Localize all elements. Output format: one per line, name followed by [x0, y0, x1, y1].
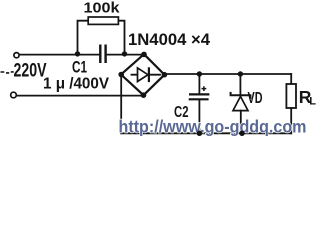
junction dot bottom rail at VD [239, 131, 244, 136]
svg-text:220V: 220V [14, 61, 47, 82]
wire bottom AC rail to bridge bottom [17, 95, 144, 97]
junction dot bridge left vertex [118, 72, 124, 78]
junction dot bridge top vertex [141, 52, 147, 58]
wire top DC rail [164, 73, 291, 75]
label + polarity of C2 [202, 86, 207, 91]
svg-text:1 μ /400V: 1 μ /400V [43, 76, 109, 93]
svg-text:1N4004 ×4: 1N4004 ×4 [128, 31, 210, 49]
svg-text:C1: C1 [72, 59, 87, 77]
wire VD bottom lead [240, 111, 242, 134]
capacitor C1 plates [100, 45, 105, 64]
bridge inner diode triangle [138, 68, 149, 82]
label ~ tilde of 220V [1, 72, 14, 73]
capacitor C2 plates [189, 94, 210, 99]
wire C2 top lead [198, 74, 200, 93]
wire bridge left vertex down (DC minus drop) [120, 75, 122, 134]
wire RL top lead [290, 74, 292, 84]
wire left stub up to 100k [78, 21, 89, 55]
resistor R 100k box [88, 17, 118, 24]
wire bottom DC rail [121, 132, 291, 134]
zener VD cathode bar with tails [231, 92, 251, 99]
resistor RL box [286, 84, 296, 108]
terminal top AC input [14, 53, 19, 58]
wire C2 bottom lead [198, 100, 200, 133]
wire C1 to bridge top [107, 54, 144, 56]
bridge rectifier diamond [121, 54, 165, 95]
junction dot right of C1 [122, 51, 127, 56]
junction dot top rail at VD [238, 71, 243, 76]
bridge inner diode cathode bar [148, 67, 150, 82]
svg-text:L: L [309, 96, 316, 108]
svg-text:100k: 100k [84, 1, 121, 17]
wire RL bottom lead [290, 108, 292, 133]
bridge inner diode lead [132, 74, 161, 76]
junction dot bridge bottom vertex [141, 92, 147, 98]
junction dot bottom rail at C2 [197, 131, 202, 136]
terminal bottom AC input [11, 92, 17, 98]
wire right stub down from 100k [118, 21, 124, 55]
wire top rail left [20, 54, 100, 56]
junction dot top rail at C2 [197, 71, 202, 76]
svg-text:http://www.go-gddq.com: http://www.go-gddq.com [119, 116, 307, 136]
zener VD triangle [233, 96, 248, 110]
svg-text:VD: VD [248, 90, 263, 107]
junction dot bridge right vertex [162, 72, 168, 78]
wire VD top lead [239, 74, 241, 94]
junction dot left of C1 [75, 51, 80, 56]
